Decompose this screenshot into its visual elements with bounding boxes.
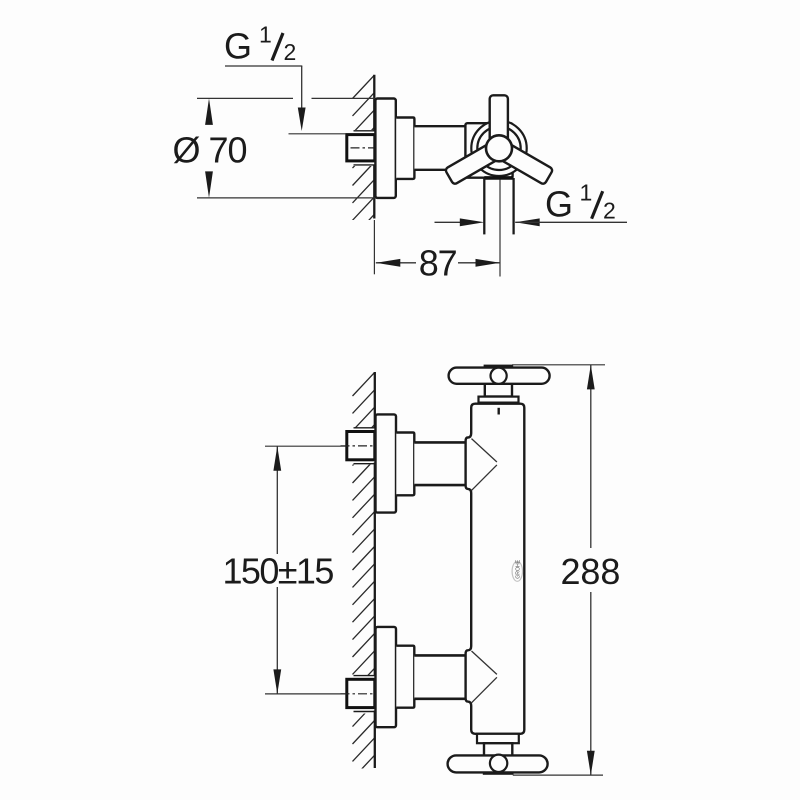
dimension 150±15 line and arrows (276, 446, 278, 554)
wall hatching (lower view) (353, 372, 376, 796)
svg-text:288: 288 (561, 551, 621, 592)
temperature index tick (498, 408, 500, 415)
dimension Ø70 extension lines (197, 97, 293, 99)
dimension G 1/2 (right label) line and arrows (435, 221, 463, 223)
dimension 288 line and arrows (590, 365, 592, 548)
upper escutcheon (lower view) (376, 414, 397, 512)
handle lower-right spoke (upper view) (497, 142, 553, 185)
text G 1/2 (right label) (545, 180, 616, 225)
handle top spoke (upper view) (490, 95, 508, 151)
svg-text:1: 1 (259, 22, 272, 48)
svg-text:150±15: 150±15 (223, 551, 334, 592)
wall hatching (upper view) (353, 75, 375, 238)
svg-text:Ø 70: Ø 70 (173, 130, 247, 171)
escutcheon step ring (upper view) (396, 118, 414, 179)
handle hub circle (upper view) (486, 135, 512, 161)
wall line (lower view) (374, 372, 376, 768)
GROHE logo on body (512, 559, 522, 581)
top handle screw circle (lower view) (491, 368, 507, 384)
valve neck (upper view) (414, 126, 466, 170)
lower nipple centerline (341, 693, 374, 695)
bottom handle hub square (lower view) (484, 743, 512, 773)
thermostat body (lower view) (466, 404, 525, 734)
upper nipple centerline (341, 445, 374, 447)
dimension 87 line and arrows (376, 262, 416, 264)
lower inlet nipple G1/2 (lower view) (346, 676, 377, 712)
lower escutcheon (lower view) (376, 627, 397, 727)
bottom handle screw circle (lower view) (490, 755, 507, 772)
wall line (upper view) (373, 75, 375, 219)
nipple top extension line (289, 133, 347, 135)
upper inlet nipple G1/2 (lower view) (346, 428, 377, 464)
top handle hub square (lower view) (485, 366, 512, 397)
bottom handle bar (lower view) (448, 755, 548, 772)
lower inlet cone chevron (472, 651, 497, 674)
nipple centerline (upper view) (351, 147, 374, 149)
svg-text:2: 2 (284, 39, 297, 65)
handle lower-left spoke (upper view) (445, 142, 501, 185)
text G 1/2 (top label) (224, 22, 296, 67)
svg-text:2: 2 (603, 197, 616, 223)
svg-text:87: 87 (419, 243, 457, 284)
threaded nipple G1/2 (upper view) (346, 131, 376, 165)
escutcheon Ø70 (upper view) (375, 99, 395, 198)
svg-text:1: 1 (580, 180, 593, 206)
top handle collar (lower view) (479, 397, 519, 403)
upper inlet neck (lower view) (414, 442, 466, 485)
dimension 150±15 extension lines (265, 445, 346, 447)
svg-text:G: G (224, 26, 252, 67)
lower inlet neck (lower view) (414, 655, 466, 698)
upper escutcheon step (lower view) (396, 433, 414, 496)
dimension Ø70 arrows (205, 98, 213, 125)
lower escutcheon step (lower view) (396, 646, 414, 708)
bottom collar (lower view) (477, 734, 519, 743)
top handle bar (lower view) (449, 368, 550, 384)
dimension G 1/2 (top label) leader (225, 65, 302, 67)
valve bonnet square (upper view) (465, 123, 512, 178)
dimension 87 extension lines (373, 220, 375, 274)
upper inlet cone chevron (472, 439, 497, 462)
handle outer ring r28 (upper view) (471, 121, 526, 176)
svg-text:GROHE: GROHE (516, 559, 522, 579)
svg-text:G: G (545, 183, 573, 224)
shower outlet below handle (upper view) (484, 176, 513, 180)
handle inner ring r22 (upper view) (477, 127, 520, 170)
dimension 288 extension lines (512, 364, 605, 366)
